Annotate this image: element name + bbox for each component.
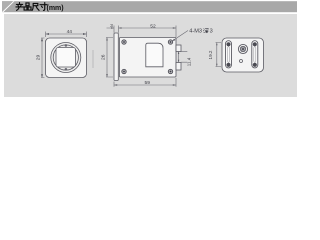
svg-text:52: 52 — [150, 23, 156, 29]
rear left slot inner groove — [228, 47, 230, 62]
side flange — [114, 33, 118, 81]
dim 26 lines — [106, 38, 113, 78]
leader arrowhead — [173, 39, 176, 41]
rear left slot bottom screw — [226, 63, 230, 67]
side screw hole TR — [168, 40, 172, 44]
dim 3/52 lines — [107, 26, 177, 38]
svg-text:44: 44 — [67, 29, 73, 35]
svg-text:29: 29 — [36, 55, 42, 61]
rear right slot bottom screw — [253, 63, 257, 67]
寸 — [40, 3, 47, 11]
dim 59 lines — [114, 78, 176, 87]
front mount square opening — [56, 48, 76, 68]
rear center screw inner — [240, 46, 245, 51]
page background — [0, 0, 300, 100]
arrowhead 52 right — [173, 27, 176, 29]
svg-text:26: 26 — [100, 54, 106, 60]
rear center screw outer — [238, 44, 247, 53]
svg-text:(mm): (mm) — [47, 5, 64, 12]
rear left slot top screw — [226, 42, 230, 46]
side top connector tab — [176, 45, 181, 52]
side body — [119, 38, 176, 78]
dim 11.4 lines — [179, 51, 188, 62]
产 — [16, 3, 23, 11]
dim 29 lines — [41, 38, 45, 78]
arrowheads 44 — [46, 33, 50, 35]
svg-text:19.2: 19.2 — [208, 50, 213, 59]
side screw hole BR — [168, 69, 172, 73]
side label sticker — [146, 43, 163, 67]
side screw hole BL — [122, 69, 126, 73]
arrowheads 59 — [114, 84, 117, 86]
rear right slot — [252, 41, 258, 68]
svg-text:3: 3 — [110, 23, 113, 29]
dim 19.2 lines — [216, 43, 222, 67]
rear small hole — [240, 60, 243, 63]
front bottom screw dot — [65, 68, 68, 71]
faint stray line — [92, 50, 94, 68]
rear left slot — [226, 41, 232, 68]
rear center screw cross — [241, 47, 245, 51]
front outer body — [46, 38, 87, 78]
drawing panel — [4, 14, 297, 97]
arrowheads 3 — [111, 27, 114, 29]
header bar — [2, 1, 297, 12]
title 产品尺寸 (drawn glyphs) — [16, 3, 47, 11]
svg-text:4-M3: 4-M3 — [189, 29, 202, 35]
arrowheads 29 — [41, 38, 43, 41]
front inner lens ring — [53, 45, 78, 70]
arrowheads 19.2 — [216, 43, 217, 46]
side screw hole TL — [122, 40, 126, 44]
arrowheads 26 — [106, 38, 108, 41]
rear right slot top screw — [253, 42, 257, 46]
svg-text:3: 3 — [210, 29, 213, 35]
front outer lens ring — [51, 43, 81, 73]
side bottom connector tab — [176, 63, 181, 71]
svg-text:59: 59 — [144, 80, 150, 86]
arrowheads 11.4 — [178, 51, 179, 54]
dim 44 lines — [46, 32, 87, 38]
leader 4-M3 — [173, 31, 188, 41]
rear outer body — [222, 38, 264, 72]
header white slash — [2, 1, 15, 12]
front top screw dot — [65, 44, 68, 47]
glyph 深 — [203, 28, 208, 32]
尺 — [32, 3, 39, 10]
header corner triangle — [2, 1, 13, 12]
dimension texts — [36, 23, 213, 86]
品 — [24, 3, 31, 10]
svg-text:11.4: 11.4 — [186, 57, 191, 66]
rear right slot inner groove — [254, 47, 256, 62]
